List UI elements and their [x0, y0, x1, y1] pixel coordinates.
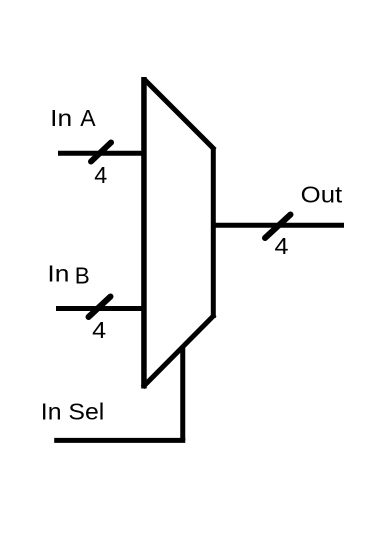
- bus slash Out: [265, 215, 291, 239]
- wire In Sel (horizontal segment): [54, 438, 185, 443]
- svg-text:4: 4: [94, 162, 107, 188]
- svg-text:In Sel: In Sel: [41, 399, 105, 425]
- svg-text:4: 4: [92, 317, 106, 343]
- svg-text:Out: Out: [301, 181, 343, 207]
- multiplexer U1 top slanted edge: [144, 79, 215, 150]
- svg-text:In: In: [47, 260, 69, 286]
- svg-text:A: A: [80, 105, 96, 131]
- svg-text:In: In: [50, 105, 72, 131]
- wire In A: [58, 151, 146, 156]
- multiplexer U1 bottom slanted edge: [143, 315, 215, 388]
- svg-text:4: 4: [275, 233, 289, 259]
- bus slash In A: [91, 143, 111, 162]
- svg-text:B: B: [75, 262, 90, 288]
- wire In Sel (vertical segment): [180, 348, 185, 440]
- bus slash In B: [89, 297, 111, 318]
- multiplexer U1 right edge: [211, 148, 216, 319]
- multiplexer U1 left edge: [141, 77, 147, 389]
- wire Out: [211, 223, 344, 228]
- wire In B: [56, 306, 146, 311]
